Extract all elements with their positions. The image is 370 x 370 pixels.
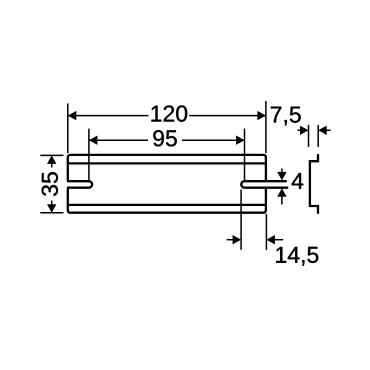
- dim 7,5 right leader: [327, 129, 331, 131]
- rail inner bottom fold line: [68, 204, 266, 206]
- dim 7,5 right arrow: [318, 126, 327, 135]
- dim 14,5 extension line right: [265, 214, 267, 250]
- rail inner top fold line: [68, 162, 266, 164]
- dim 35 arrow top: [47, 155, 56, 164]
- rail outline lower part: [68, 188, 266, 213]
- dim 120 line left segment: [68, 115, 149, 117]
- dim 7,5 extension line right: [317, 125, 319, 147]
- dim 35 arrow bottom: [47, 204, 56, 213]
- dim 14,5 extension line left: [240, 190, 242, 250]
- dim 4 bottom arrow: [277, 188, 286, 197]
- dim 35 extension tick bottom: [40, 212, 63, 214]
- dim 95 line right segment: [182, 139, 245, 141]
- dim 4 top arrow: [277, 172, 286, 181]
- dim 35 line lower segment: [51, 201, 53, 213]
- side profile (section view): [310, 154, 318, 214]
- dim 14,5 left leader: [227, 239, 233, 241]
- dim 7,5 text: [271, 107, 301, 126]
- dim 95 text: [153, 130, 177, 146]
- dim 14,5 right leader: [275, 239, 283, 241]
- dim 14,5 left arrow: [233, 235, 242, 244]
- dim 35 line upper segment: [51, 155, 53, 167]
- dim 95 arrow right: [236, 136, 245, 145]
- side profile bottom flange tip: [317, 205, 320, 207]
- dim 35 text (rotated): [42, 172, 58, 196]
- dim 120 arrow left: [68, 111, 77, 120]
- dim 4 text: [292, 173, 304, 189]
- dim 14,5 right arrow: [266, 235, 275, 244]
- dim 7,5 extension line left: [308, 125, 310, 147]
- dim 35 extension tick top: [40, 154, 63, 156]
- dim 120 text: [151, 105, 187, 121]
- dim 4 top leader: [281, 169, 283, 174]
- left slot: [67, 181, 92, 188]
- right slot: [241, 181, 288, 188]
- side profile top flange tip: [317, 160, 320, 162]
- dim 95 extension line left: [88, 129, 90, 182]
- dim 7,5 left leader: [298, 129, 301, 131]
- dim 95 line left segment: [89, 139, 148, 141]
- dim 14,5 text: [276, 247, 318, 266]
- dim 120 extension line left: [67, 104, 69, 154]
- dim 95 extension line right: [244, 129, 246, 182]
- rail outline upper part: [68, 155, 266, 181]
- dim 120 extension line right: [265, 101, 267, 153]
- dim 95 arrow left: [89, 136, 98, 145]
- dim 120 arrow right: [257, 111, 266, 120]
- dim 120 line right segment: [189, 115, 266, 117]
- dim 7,5 left arrow: [300, 126, 309, 135]
- dim 4 bottom leader: [281, 196, 283, 205]
